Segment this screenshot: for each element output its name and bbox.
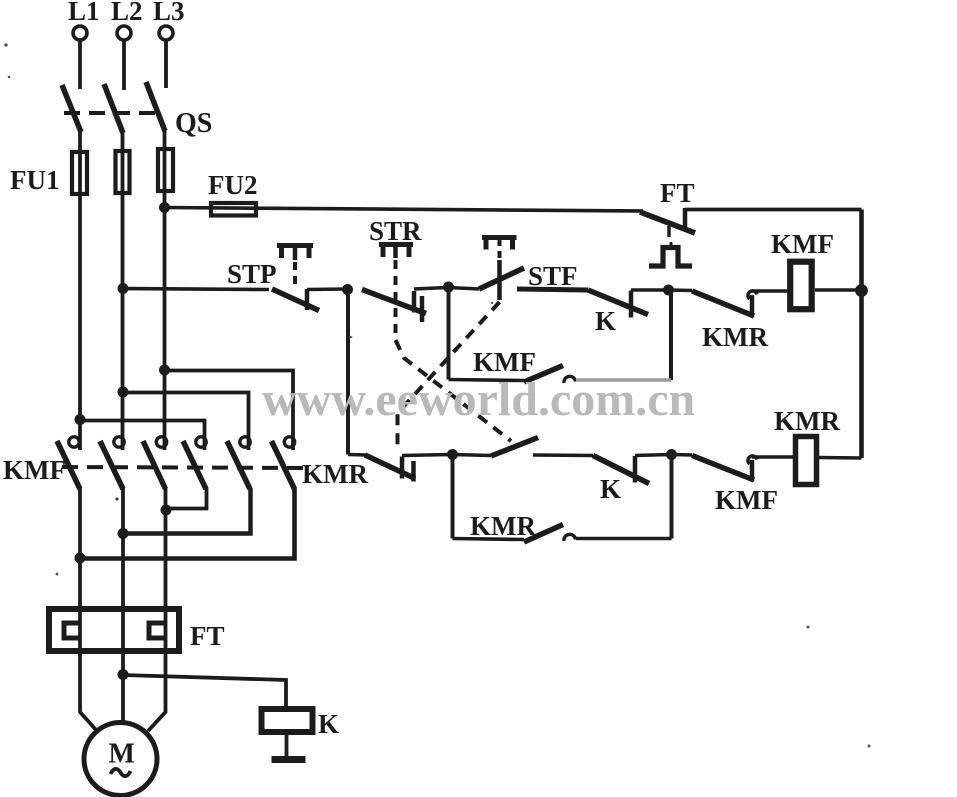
node K relay tap xyxy=(118,669,129,680)
wire FU2 top line xyxy=(165,208,644,212)
wire motor lead 3 xyxy=(148,487,166,731)
contact STF NC blade xyxy=(365,455,415,479)
node contact4 phase3 xyxy=(161,505,172,516)
svg-text:KMF: KMF xyxy=(3,455,66,485)
scan speck 7 xyxy=(807,626,810,629)
wire KMF aux rung left xyxy=(449,380,525,381)
terminal L1 xyxy=(73,26,87,40)
contact K top blade xyxy=(588,290,648,315)
wire right vertical rail xyxy=(859,210,864,459)
wire QS2 to FU1 xyxy=(121,131,125,150)
svg-text:KMF: KMF xyxy=(771,229,834,259)
contactor mechanical link dashed xyxy=(62,467,305,468)
contact KMR aux NO blade xyxy=(524,525,563,543)
svg-text:FU1: FU1 xyxy=(10,165,60,195)
wire to K relay xyxy=(123,675,286,707)
wire K lower to node F xyxy=(635,455,670,456)
svg-text:K: K xyxy=(600,474,621,504)
switch QS pole 1 blade xyxy=(62,85,81,132)
fuse FU1 phase1 xyxy=(72,152,87,194)
svg-text:L2: L2 xyxy=(111,0,143,26)
contact KMF NC blade xyxy=(692,456,754,481)
scan speck 5 xyxy=(350,336,353,339)
node control rung left xyxy=(118,283,129,294)
svg-text:M: M xyxy=(109,739,135,770)
svg-text:FU2: FU2 xyxy=(208,170,258,200)
switch QS pole 2 blade xyxy=(104,84,123,133)
wire KMR aux rung right xyxy=(576,537,672,541)
contactor KMF main contact 1 terminal xyxy=(69,437,79,447)
K top terminal bar xyxy=(629,291,634,318)
node contact5 phase2 xyxy=(118,528,129,539)
STR terminal bar xyxy=(412,291,417,313)
wire contact5 top xyxy=(125,393,249,451)
wire K to node C xyxy=(631,288,667,292)
svg-text:www.eeworld.com.cn: www.eeworld.com.cn xyxy=(262,373,695,426)
svg-text:K: K xyxy=(595,306,616,336)
contactor KMR main contact 6 terminal xyxy=(284,437,294,447)
KMF main contact 1 blade xyxy=(57,441,80,489)
STP stem dashed xyxy=(293,262,297,287)
contact KMR NC blade xyxy=(692,291,754,316)
fuse FU1 phase2 xyxy=(116,151,130,193)
contactor KMF main contact 3 terminal xyxy=(156,437,166,447)
fuse FU2 xyxy=(211,203,256,216)
scan speck 6 xyxy=(491,302,493,304)
pushbutton STF cap xyxy=(482,237,517,250)
wire node B to STF pivot xyxy=(449,288,480,290)
contactor KMF main contact 2 terminal xyxy=(114,437,124,447)
wire FU1-1 down to contact xyxy=(78,152,82,450)
svg-text:STP: STP xyxy=(227,259,277,289)
contact KMF aux NO blade xyxy=(524,366,563,383)
svg-text:L1: L1 xyxy=(68,0,100,26)
STF stem vertical xyxy=(497,260,502,300)
wire contact6 top xyxy=(166,371,293,451)
contactor KMR main contact 4 terminal xyxy=(196,437,206,447)
svg-text:KMR: KMR xyxy=(470,511,536,541)
contact K lower blade xyxy=(593,456,649,484)
wire node F down xyxy=(670,455,674,539)
coil KMR xyxy=(796,437,817,485)
FT heater element left xyxy=(64,623,80,638)
wire node F to KMF NC xyxy=(672,453,693,457)
wire node E down xyxy=(451,455,455,539)
wire contact4 bottom crossover to phase3 xyxy=(167,488,207,509)
svg-text:KMR: KMR xyxy=(302,459,368,489)
FT heater element right xyxy=(149,623,165,638)
thermal relay FT box xyxy=(49,609,179,651)
terminal L2 xyxy=(117,26,131,40)
KMR main contact 6 blade xyxy=(272,441,295,489)
wire STF to K contact xyxy=(517,289,588,290)
KMF aux hook xyxy=(564,376,576,383)
wire motor lead 2 xyxy=(121,487,125,722)
contactor KMR main contact 5 terminal xyxy=(240,437,250,447)
KMF main contact 2 blade xyxy=(100,441,123,489)
STF dashed link diagonal to lower rung xyxy=(398,302,500,451)
STR cap stem xyxy=(393,245,398,258)
wire KMF NC to coil KMR xyxy=(752,455,795,459)
wire contact4 top xyxy=(82,421,205,451)
node C xyxy=(663,285,674,296)
motor tilde xyxy=(111,769,131,776)
KMR main contact 5 blade xyxy=(227,441,250,489)
fuse FU1 phase3 xyxy=(158,149,173,191)
wire FT to right corner xyxy=(685,208,862,212)
STF NC terminal bar xyxy=(400,457,405,479)
wire STR NO to K lower xyxy=(533,453,593,457)
node E xyxy=(447,449,458,460)
wire node E to STR NO xyxy=(453,455,492,456)
scan speck 1 xyxy=(4,43,7,46)
STF cap stem dashed xyxy=(498,239,502,258)
QS mechanical link dashed xyxy=(64,111,163,115)
wire L2 to QS xyxy=(122,40,126,90)
pushbutton STP cap xyxy=(277,245,313,258)
STR terminal bar 2 xyxy=(420,296,425,322)
switch QS pole 3 blade xyxy=(146,82,165,131)
svg-text:KMR: KMR xyxy=(774,406,840,436)
wire FU1-3 down to contact xyxy=(163,149,167,450)
KMR NC hook xyxy=(748,291,757,299)
wire node A down to KMR rung xyxy=(346,290,350,455)
svg-text:QS: QS xyxy=(175,108,212,139)
wire coil KMR to right rail xyxy=(819,456,862,460)
svg-text:FT: FT xyxy=(660,178,695,208)
node phase3 to KMR contact6 xyxy=(159,365,170,376)
pushbutton STR cap xyxy=(379,244,413,257)
wire K relay to shaft xyxy=(285,735,289,756)
svg-text:STF: STF xyxy=(528,261,578,291)
STP cap stem xyxy=(293,246,298,260)
pushbutton STF NO blade xyxy=(479,268,524,289)
wire KMR rung start xyxy=(348,453,366,457)
svg-text:K: K xyxy=(318,709,339,739)
scan speck 2 xyxy=(8,76,11,79)
svg-text:STR: STR xyxy=(369,216,422,246)
K lower terminal bar xyxy=(633,456,638,483)
node A top rung left xyxy=(342,284,353,295)
wire KMR aux rung left xyxy=(453,539,525,540)
wire node B down to KMF aux xyxy=(447,287,451,380)
node FU2 tap xyxy=(159,202,170,213)
node F xyxy=(666,449,677,460)
wire STR to node B xyxy=(414,288,447,290)
wire motor lead 1 xyxy=(80,487,97,731)
KMF NC hook xyxy=(748,456,757,464)
wire KMF aux rung right (gray) xyxy=(576,378,671,382)
wire node C to KMR NC xyxy=(669,288,693,292)
STF NC terminal bar 2 xyxy=(411,461,416,482)
coil KMF xyxy=(790,262,812,310)
STR stem dashed vertical xyxy=(394,260,398,340)
contact STR NO blade xyxy=(491,438,538,457)
wire KMR NC to coil KMF xyxy=(752,289,790,293)
node B xyxy=(443,282,454,293)
K relay shaft bar xyxy=(272,756,306,763)
pushbutton STP NC blade xyxy=(272,289,319,311)
terminal L3 xyxy=(159,26,173,40)
FT link tick xyxy=(667,226,670,237)
KMR NC terminal bar xyxy=(750,295,755,317)
wire node C down xyxy=(669,291,673,381)
wire contact6 bottom crossover to phase1 xyxy=(82,488,295,559)
KMR aux hook xyxy=(564,534,576,541)
node phase1 to KMR contact4 xyxy=(75,414,86,425)
FT heater bump symbol xyxy=(649,248,692,267)
wire contact5 bottom to phase2 xyxy=(125,488,251,534)
FT contact terminal bar xyxy=(683,208,688,231)
wire left rung feed xyxy=(123,289,269,290)
svg-text:KMR: KMR xyxy=(702,322,768,352)
motor M circle xyxy=(84,723,157,796)
thermal relay FT contact blade xyxy=(640,212,695,233)
wire FU1-2 down to contact xyxy=(121,151,125,450)
node contact6 phase1 xyxy=(75,553,86,564)
KMF main contact 3 blade xyxy=(143,441,166,489)
scan speck 4 xyxy=(56,573,59,576)
relay K body xyxy=(262,709,313,732)
wire STP to node xyxy=(307,287,346,291)
scan speck 8 xyxy=(868,745,871,748)
wire STF NC to node E xyxy=(402,455,451,456)
wire coil KMF to right rail xyxy=(815,288,862,292)
STR dashed link diagonal to lower rung xyxy=(396,340,512,441)
node D right rail xyxy=(855,284,868,297)
wire QS3 to FU1 xyxy=(163,130,167,148)
node phase2 to KMR contact5 xyxy=(118,387,129,398)
STP terminal bar xyxy=(305,289,310,310)
svg-text:L3: L3 xyxy=(153,0,185,26)
wire L1 to QS xyxy=(78,40,82,89)
KMF NC terminal bar xyxy=(750,460,755,482)
pushbutton STR NC blade xyxy=(362,290,426,314)
svg-text:FT: FT xyxy=(190,621,225,651)
scan speck 3 xyxy=(115,497,118,500)
wire L3 to QS xyxy=(164,40,168,88)
KMR main contact 4 blade xyxy=(183,441,206,489)
svg-text:KMF: KMF xyxy=(715,485,778,515)
wire QS1 to FU1 xyxy=(78,130,82,151)
